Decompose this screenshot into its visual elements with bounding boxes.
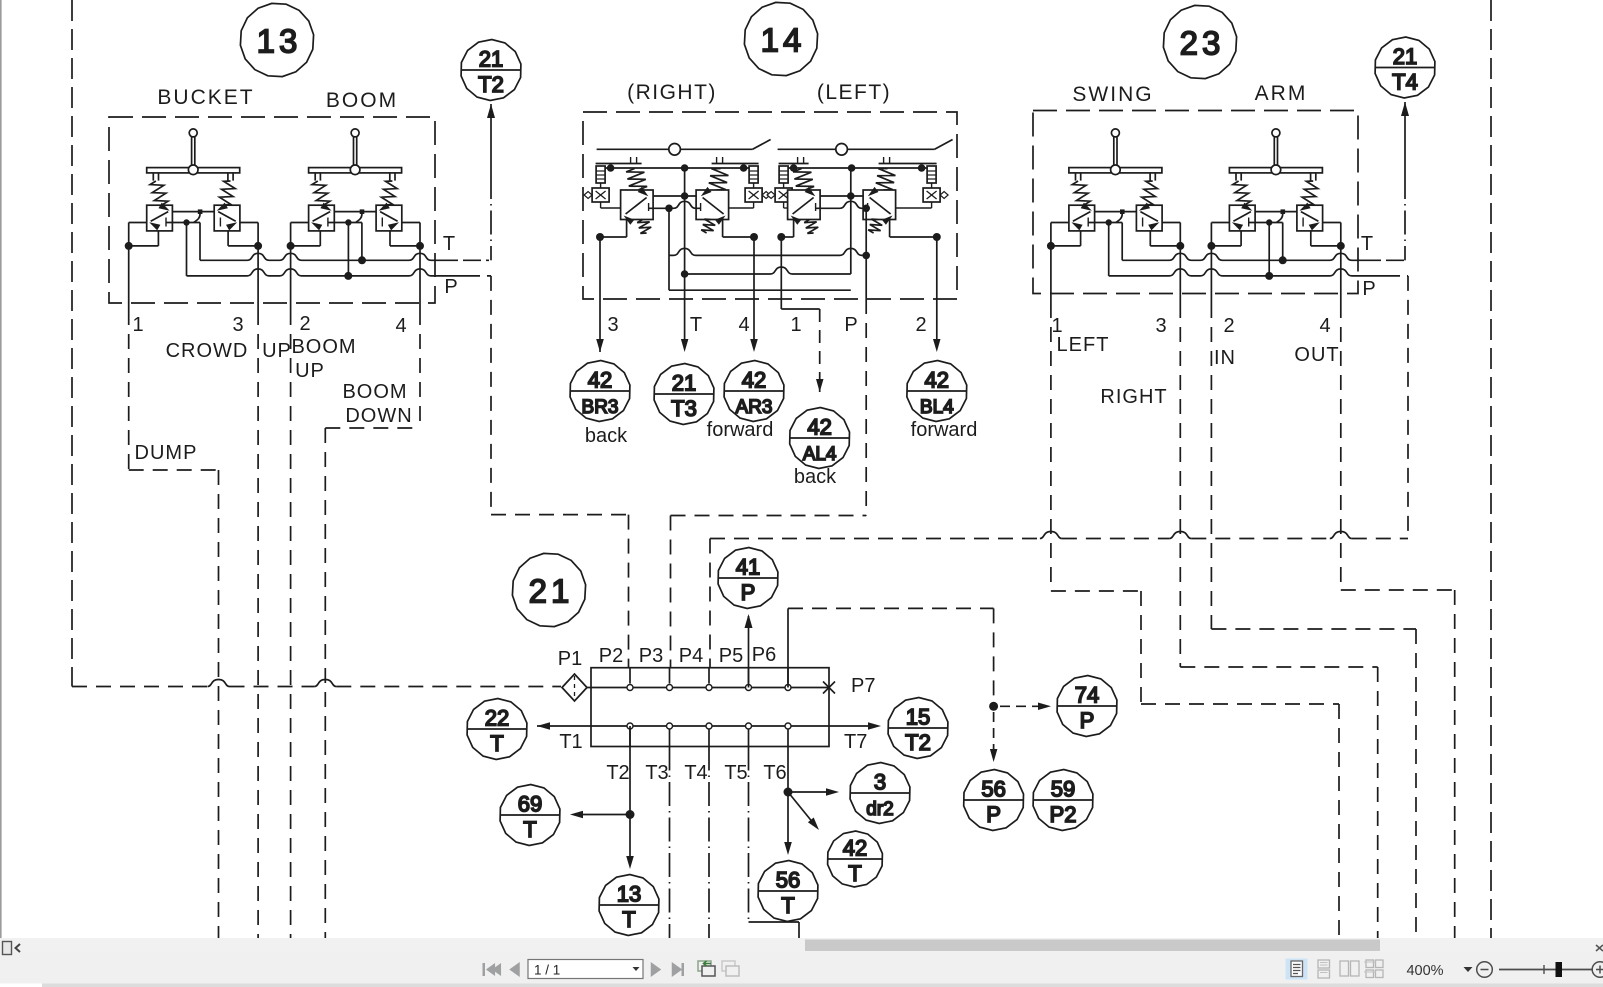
horizontal scrollbar thumb	[805, 940, 1380, 952]
svg-text:P3: P3	[639, 645, 663, 667]
svg-text:T5: T5	[724, 762, 747, 784]
svg-text:P6: P6	[752, 644, 776, 666]
svg-text:forward: forward	[911, 419, 978, 441]
manifold block 21	[591, 668, 829, 747]
junction dot near 74/P	[989, 702, 998, 711]
svg-text:T4: T4	[1392, 70, 1418, 95]
svg-text:BUCKET: BUCKET	[157, 86, 254, 109]
svg-text:3: 3	[874, 770, 886, 795]
nav first-page button	[483, 963, 502, 976]
svg-text:21: 21	[1393, 44, 1417, 69]
T rail box23	[1122, 253, 1378, 260]
svg-text:AR3: AR3	[736, 397, 773, 418]
port 4 BOOM DOWN dashed path	[419, 310, 421, 428]
svg-text:42: 42	[588, 368, 612, 393]
single page view icon (active)	[1286, 959, 1308, 980]
svg-text:74: 74	[1075, 683, 1099, 708]
svg-text:42: 42	[925, 368, 949, 393]
T rail manifold	[537, 725, 591, 727]
svg-text:21: 21	[529, 573, 574, 610]
svg-text:(RIGHT): (RIGHT)	[627, 81, 717, 104]
riser to circle 21/T4	[1401, 102, 1409, 116]
T2 line with arrows to 69/T and 13/T	[629, 726, 631, 815]
svg-text:P: P	[1080, 708, 1095, 733]
sheet border left dashed	[71, 0, 73, 687]
svg-text:3: 3	[232, 314, 243, 336]
pilot valve unit BUCKET	[125, 129, 262, 276]
svg-text:T7: T7	[844, 731, 867, 753]
svg-text:T: T	[690, 314, 702, 336]
riser to circle 21/T2	[487, 104, 495, 118]
svg-text:P7: P7	[851, 675, 875, 697]
enclosure box 13 dashed border	[109, 117, 435, 303]
svg-text:T: T	[490, 731, 503, 756]
port circle 56/P	[964, 770, 1024, 831]
port 1 DUMP dashed path	[128, 310, 130, 470]
P drop from box14 to manifold P3	[865, 299, 867, 516]
svg-text:41: 41	[736, 555, 760, 580]
labels box14	[585, 81, 977, 488]
svg-text:1 / 1: 1 / 1	[534, 963, 560, 978]
svg-text:22: 22	[485, 706, 509, 731]
enclosure box 14 dashed border	[583, 112, 957, 299]
svg-text:T: T	[523, 817, 536, 842]
port 2 IN dashed path	[1210, 303, 1212, 629]
T5 dash-dot down and corner	[748, 747, 750, 923]
svg-text:P: P	[741, 580, 756, 605]
port 4 OUT dashed path	[1340, 303, 1342, 590]
svg-text:T2: T2	[478, 72, 504, 97]
svg-text:P1: P1	[558, 648, 582, 670]
pilot valve unit ARM	[1207, 129, 1344, 276]
P rail manifold	[587, 687, 829, 689]
svg-text:T4: T4	[684, 762, 707, 784]
T6 junction with arrows	[787, 747, 789, 793]
bottom toolbar background	[0, 953, 1603, 984]
pedal valve unit LEFT pedal	[767, 140, 953, 234]
two page continuous icon	[1364, 960, 1383, 978]
P rail box13	[187, 269, 469, 276]
svg-text:BOOM: BOOM	[291, 336, 356, 358]
zoom out button	[1477, 962, 1493, 978]
port circle 56/T	[758, 861, 818, 922]
svg-text:4: 4	[395, 315, 406, 337]
svg-text:IN: IN	[1214, 347, 1236, 369]
nav last-page button	[672, 962, 684, 977]
labels box23	[1051, 82, 1375, 408]
pedal valve unit RIGHT pedal	[584, 140, 771, 234]
svg-text:UP: UP	[295, 360, 325, 382]
svg-text:21: 21	[479, 47, 503, 72]
svg-text:400%: 400%	[1406, 963, 1443, 979]
port circle 42/AR3	[724, 361, 784, 422]
svg-text:BR3: BR3	[582, 397, 619, 418]
svg-text:T6: T6	[763, 762, 786, 784]
svg-text:T3: T3	[671, 396, 697, 421]
P1 filter diamond	[562, 674, 587, 701]
balloon 13	[240, 3, 313, 76]
port lines box23	[1050, 246, 1052, 303]
svg-text:21: 21	[672, 371, 696, 396]
balloon 23	[1163, 5, 1236, 78]
svg-text:T: T	[622, 907, 635, 932]
svg-text:42: 42	[742, 368, 766, 393]
svg-text:T: T	[848, 861, 861, 886]
svg-text:P: P	[444, 276, 457, 298]
P7 cross mark	[823, 682, 835, 694]
nav next button	[651, 962, 662, 977]
svg-text:4: 4	[738, 314, 749, 336]
svg-text:P2: P2	[599, 645, 623, 667]
svg-text:OUT: OUT	[1294, 344, 1339, 366]
svg-text:T2: T2	[905, 730, 931, 755]
svg-text:13: 13	[617, 882, 641, 907]
labels box13	[132, 86, 457, 464]
svg-text:13: 13	[257, 23, 302, 60]
zoom slider	[1499, 962, 1592, 977]
T rail box13	[200, 253, 455, 260]
svg-text:AL4: AL4	[803, 444, 837, 465]
pilot valve unit SWING	[1047, 129, 1184, 276]
svg-text:P: P	[1362, 278, 1375, 300]
port circle 21/T4	[1375, 37, 1435, 98]
svg-text:56: 56	[776, 868, 800, 893]
zoom dropdown caret	[1464, 967, 1473, 972]
svg-text:2: 2	[299, 313, 310, 335]
svg-text:42: 42	[843, 836, 867, 861]
svg-text:BOOM: BOOM	[326, 89, 398, 112]
svg-text:56: 56	[981, 777, 1005, 802]
svg-text:LEFT: LEFT	[1057, 334, 1110, 356]
svg-text:T: T	[443, 233, 455, 255]
nav prev button	[509, 962, 520, 977]
svg-text:4: 4	[1319, 315, 1330, 337]
svg-text:14: 14	[761, 22, 806, 59]
svg-text:P: P	[844, 314, 857, 336]
svg-text:ARM: ARM	[1255, 82, 1308, 105]
port circle 22/T	[467, 699, 527, 760]
balloon 21	[512, 553, 585, 626]
plumbing left pedal	[671, 168, 941, 684]
two page view icon	[1340, 961, 1359, 976]
svg-text:T3: T3	[645, 762, 668, 784]
svg-text:UP: UP	[262, 340, 292, 362]
previous-view icon	[698, 961, 715, 976]
svg-text:BL4: BL4	[920, 397, 954, 418]
continuous view icon	[1318, 960, 1330, 978]
svg-text:back: back	[794, 466, 837, 488]
horizontal scrollbar track	[0, 938, 1603, 953]
port circle 42/T	[828, 831, 883, 887]
svg-text:T: T	[1361, 233, 1373, 255]
svg-text:T: T	[781, 893, 794, 918]
port circle 21/T2	[461, 40, 521, 101]
bottom edge strip	[0, 984, 1603, 987]
svg-text:(LEFT): (LEFT)	[817, 81, 891, 104]
svg-text:1: 1	[790, 314, 801, 336]
svg-text:SWING: SWING	[1072, 83, 1153, 106]
next-view icon (disabled)	[722, 961, 739, 976]
port circle 42/BL4	[907, 361, 967, 422]
svg-text:2: 2	[915, 314, 926, 336]
svg-text:P5: P5	[719, 645, 743, 667]
svg-text:P: P	[986, 802, 1001, 827]
port circle 74/P	[1057, 676, 1117, 737]
svg-text:1: 1	[132, 314, 143, 336]
port lines box13	[128, 246, 130, 310]
port circle 69/T	[500, 785, 560, 846]
enclosure box 23 dashed border	[1033, 111, 1358, 294]
labels manifold	[558, 644, 876, 784]
long dashed P line y538 to manifold P4	[710, 538, 1040, 540]
svg-text:DUMP: DUMP	[135, 442, 198, 464]
plumbing right pedal	[596, 168, 866, 352]
svg-text:DOWN: DOWN	[345, 405, 412, 427]
port 3 dashed down	[257, 310, 259, 941]
svg-text:2: 2	[1223, 315, 1234, 337]
T rail dash-dot to riser	[455, 259, 491, 261]
svg-text:T2: T2	[606, 762, 629, 784]
svg-text:3: 3	[607, 314, 618, 336]
svg-text:CROWD: CROWD	[166, 340, 249, 362]
scrollbar corner glyph	[1596, 945, 1603, 951]
sheet border right dashed	[1490, 0, 1492, 941]
port circle 3/dr2	[850, 763, 910, 824]
svg-text:T1: T1	[559, 731, 582, 753]
P5 riser to 41/P	[748, 616, 750, 688]
P rail box23	[1109, 269, 1388, 276]
sidebar collapse button	[3, 942, 21, 955]
P6 riser and dashed to junction	[787, 608, 789, 687]
window left border	[0, 0, 2, 941]
svg-text:23: 23	[1180, 25, 1225, 62]
svg-text:3: 3	[1155, 315, 1166, 337]
port circle 21/T3	[654, 364, 714, 425]
T3 dash-dot down	[669, 747, 671, 942]
svg-text:P2: P2	[1050, 802, 1077, 827]
P drop from box13 down to manifold P2	[490, 276, 492, 515]
port 2 dashed down	[290, 310, 292, 941]
port 1 LEFT dashed path	[1050, 303, 1052, 591]
svg-text:forward: forward	[707, 419, 774, 441]
T4 dash-dot down	[708, 747, 710, 942]
svg-text:59: 59	[1051, 777, 1075, 802]
svg-text:15: 15	[906, 705, 930, 730]
port circle 59/P2	[1033, 770, 1093, 831]
P corner to riser x491	[468, 275, 491, 277]
page number box	[528, 960, 643, 979]
svg-text:back: back	[585, 425, 628, 447]
P drop from box23	[1407, 276, 1409, 539]
manifold port stubs	[629, 668, 631, 684]
port circle 42/AL4	[790, 408, 850, 469]
port circle 42/BR3	[570, 361, 630, 422]
svg-text:42: 42	[807, 415, 831, 440]
svg-text:P4: P4	[679, 645, 703, 667]
svg-text:dr2: dr2	[866, 799, 893, 820]
svg-text:69: 69	[518, 792, 542, 817]
pilot valve unit BOOM	[287, 129, 424, 276]
port 3 dashed path	[1179, 303, 1181, 667]
svg-text:RIGHT: RIGHT	[1100, 386, 1167, 408]
zoom in button	[1592, 962, 1603, 978]
balloon 14	[744, 2, 817, 75]
dashed line from left border to P1	[72, 686, 208, 688]
svg-text:BOOM: BOOM	[342, 381, 407, 403]
port circle 15/T2	[888, 698, 948, 759]
port circle 41/P	[718, 548, 778, 609]
port circle 13/T	[599, 875, 659, 936]
